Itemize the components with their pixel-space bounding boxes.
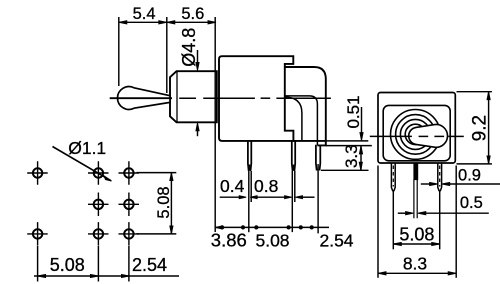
svg-text:0.5: 0.5 <box>460 194 483 212</box>
svg-text:Ø4.8: Ø4.8 <box>179 28 199 67</box>
svg-text:0.8: 0.8 <box>254 176 278 196</box>
svg-text:5.08: 5.08 <box>50 255 85 275</box>
svg-text:5.08: 5.08 <box>255 231 289 251</box>
svg-text:5.08: 5.08 <box>155 186 173 218</box>
svg-text:0.4: 0.4 <box>220 176 245 196</box>
svg-text:5.4: 5.4 <box>133 5 156 23</box>
svg-text:2.54: 2.54 <box>132 255 167 275</box>
svg-text:0.51: 0.51 <box>344 95 363 128</box>
svg-text:5.08: 5.08 <box>399 225 434 245</box>
svg-text:5.6: 5.6 <box>181 5 204 23</box>
svg-text:Ø1.1: Ø1.1 <box>68 138 106 158</box>
svg-text:9.2: 9.2 <box>470 115 491 141</box>
svg-text:0.9: 0.9 <box>458 166 481 184</box>
svg-text:3.86: 3.86 <box>211 230 247 251</box>
svg-text:3.3: 3.3 <box>342 144 361 168</box>
svg-text:8.3: 8.3 <box>403 254 427 274</box>
svg-text:2.54: 2.54 <box>319 231 353 251</box>
